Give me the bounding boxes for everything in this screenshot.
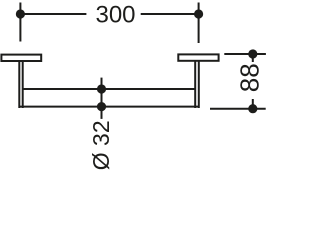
dim 88 vertical line lower stub (252, 99, 254, 109)
dim 88 top extension line (224, 53, 266, 55)
dim o32 top dot (97, 84, 106, 93)
left post inner line (22, 62, 24, 109)
left wall flange (1, 55, 41, 61)
dim 300 right endpoint dot (194, 9, 203, 18)
dim 300 dimension line left segment (20, 13, 86, 15)
svg-text:88: 88 (235, 63, 265, 92)
dim 300 right extension line (198, 3, 200, 44)
right wall flange (178, 54, 218, 60)
left post outer line (18, 62, 20, 109)
svg-text:300: 300 (95, 2, 135, 29)
dim o32 vertical line (101, 78, 103, 119)
bar bottom line (19, 106, 199, 108)
dim 300 dimension line right segment (141, 13, 199, 15)
dim o32 bottom dot (97, 102, 106, 111)
dim 88 bottom extension line (210, 108, 266, 110)
dim 88 top dot (248, 49, 257, 58)
svg-text:Ø 32: Ø 32 (88, 120, 114, 170)
dim 300 left extension line (19, 3, 21, 42)
right post outer line (198, 62, 200, 109)
right post inner line (194, 62, 196, 109)
dim 88 bottom dot (248, 104, 257, 113)
dim 300 left endpoint dot (16, 9, 25, 18)
dim 88 vertical line upper stub (252, 54, 254, 62)
bar top line (23, 88, 196, 90)
